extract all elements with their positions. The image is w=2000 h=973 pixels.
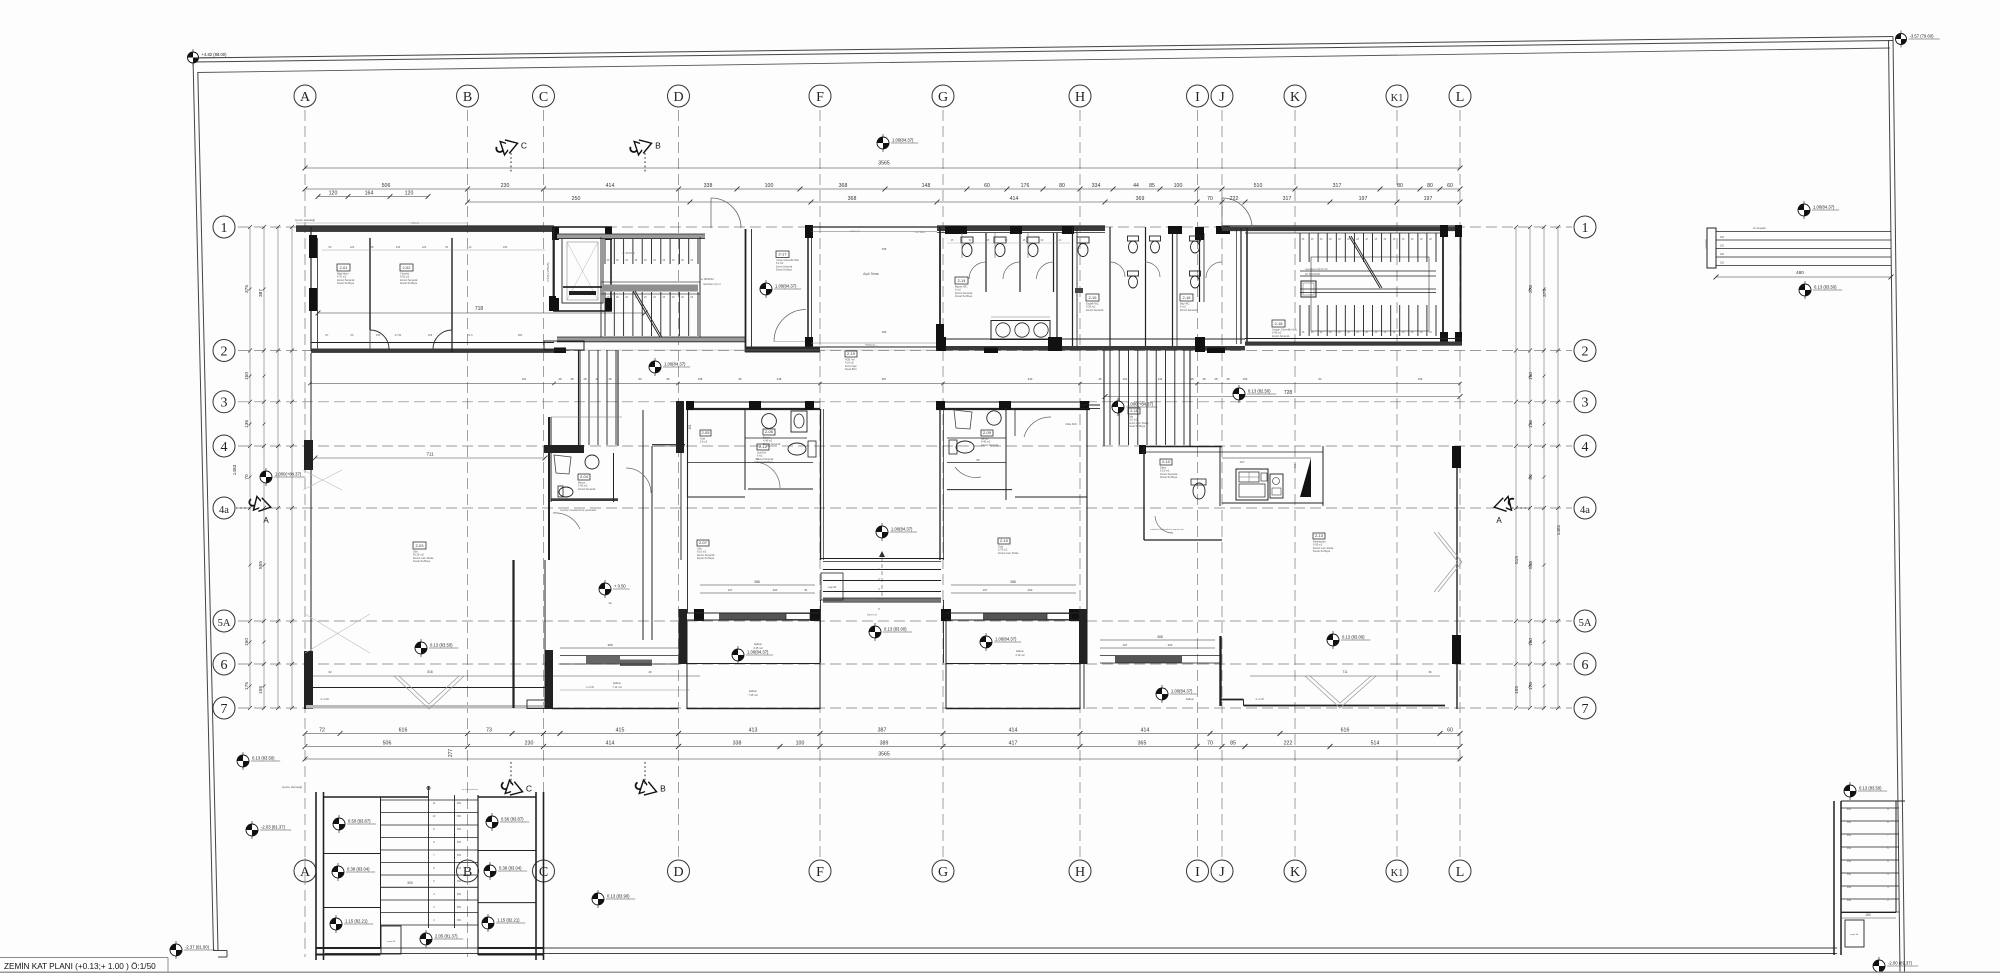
svg-text:0.+9.08: 0.+9.08 [586,686,595,689]
svg-text:+4.82 (88.00): +4.82 (88.00) [202,52,228,57]
svg-text:K1: K1 [1391,93,1404,104]
svg-text:4: 4 [1582,440,1589,455]
svg-text:317: 317 [1283,196,1292,202]
svg-text:120: 120 [422,245,427,249]
svg-text:352: 352 [457,906,462,909]
svg-text:K: K [1290,865,1300,880]
svg-text:352: 352 [1847,847,1852,850]
svg-text:5A: 5A [218,618,231,629]
svg-text:388: 388 [607,643,612,647]
svg-text:387: 387 [882,377,887,381]
svg-text:155: 155 [1514,686,1520,694]
svg-text:0.38 (83.04): 0.38 (83.04) [499,866,522,871]
svg-text:Duvar:Sv.Boya: Duvar:Sv.Boya [757,461,773,464]
svg-text:kamer yd: kamer yd [865,344,876,347]
svg-text:D: D [673,865,683,880]
svg-text:80: 80 [1528,474,1534,480]
svg-text:81: 81 [804,588,808,592]
svg-text:28: 28 [1214,377,1218,381]
svg-text:387: 387 [258,289,264,297]
svg-text:164: 164 [365,191,374,197]
svg-text:Duvar:Sv.Boya: Duvar:Sv.Boya [413,559,431,563]
svg-text:3a: 3a [608,601,612,605]
svg-text:70: 70 [244,474,250,480]
svg-text:merdiven (A m): merdiven (A m) [703,282,721,286]
svg-text:368: 368 [848,196,857,202]
svg-text:100: 100 [796,741,805,747]
svg-text:0.13 (83.00): 0.13 (83.00) [1342,635,1365,640]
svg-text:1481: 1481 [1556,524,1562,535]
svg-text:D: D [673,90,683,105]
svg-text:317: 317 [1333,183,1342,189]
svg-text:1: 1 [221,221,228,236]
svg-text:Duvar:Brüt: Duvar:Brüt [845,368,857,371]
svg-text:engel lift: engel lift [1850,933,1859,936]
svg-text:F: F [816,90,824,105]
svg-text:132: 132 [1158,377,1163,381]
svg-text:K1: K1 [1391,868,1404,879]
svg-text:2-04: 2-04 [580,474,589,479]
svg-text:107: 107 [728,588,733,592]
svg-text:1.00(84.37): 1.00(84.37) [775,284,797,289]
svg-text:96: 96 [738,377,742,381]
svg-text:3.35 m2: 3.35 m2 [753,646,763,650]
svg-text:J: J [1219,865,1225,880]
svg-text:352: 352 [1847,808,1852,811]
svg-text:3: 3 [221,396,228,411]
svg-text:60: 60 [1447,183,1453,189]
svg-text:161: 161 [688,424,692,430]
svg-text:417: 417 [1009,741,1018,747]
svg-text:I: I [1195,90,1200,105]
svg-text:136: 136 [1528,420,1534,428]
svg-text:Duvar:Sv.Boya: Duvar:Sv.Boya [1313,549,1331,553]
svg-text:73: 73 [486,728,492,734]
svg-text:+ 0.50: + 0.50 [614,584,626,589]
svg-text:510: 510 [1254,183,1263,189]
svg-text:2-11: 2-11 [1130,408,1138,413]
svg-text:352: 352 [457,867,462,870]
svg-text:1.15 (82.21): 1.15 (82.21) [497,918,520,923]
svg-text:388: 388 [1157,635,1163,639]
svg-text:352: 352 [457,919,462,922]
svg-text:136: 136 [244,420,250,428]
svg-text:302: 302 [1720,262,1725,265]
svg-text:1.00(84.37): 1.00(84.37) [1813,205,1835,210]
svg-text:2-05: 2-05 [701,430,710,435]
svg-text:415: 415 [616,728,625,734]
svg-text:414: 414 [1010,196,1019,202]
svg-text:2-02: 2-02 [402,265,411,270]
svg-text:352: 352 [1847,873,1852,876]
svg-text:G: G [938,865,948,880]
svg-text:-2.37 (81.00): -2.37 (81.00) [185,945,210,950]
svg-text:7.35 m2: 7.35 m2 [748,693,758,697]
svg-text:K: K [1290,90,1300,105]
svg-text:222: 222 [1284,741,1293,747]
svg-text:1: 1 [1582,221,1589,236]
svg-text:166: 166 [428,333,433,337]
svg-text:0.38 (83.04): 0.38 (83.04) [347,867,370,872]
svg-text:7.14 m2: 7.14 m2 [612,685,622,689]
svg-text:bu rampalar: bu rampalar [1753,227,1766,230]
svg-text:4a: 4a [219,505,229,516]
svg-text:L: L [1456,90,1465,105]
svg-text:375: 375 [1542,289,1548,297]
svg-text:515: 515 [1514,556,1520,564]
svg-text:158: 158 [698,377,703,381]
svg-text:0.13 (83.00): 0.13 (83.00) [884,627,907,632]
svg-text:C: C [521,141,527,151]
svg-text:300: 300 [407,881,413,885]
svg-text:52: 52 [1318,377,1322,381]
svg-text:352: 352 [457,854,462,857]
svg-text:-0.+9.08: -0.+9.08 [320,698,330,701]
svg-text:718: 718 [475,306,484,312]
svg-text:3565: 3565 [878,752,890,758]
svg-text:100: 100 [765,183,774,189]
svg-text:cam kaide: cam kaide [915,232,926,234]
svg-text:C: C [539,90,548,105]
svg-text:148: 148 [922,183,931,189]
svg-text:200: 200 [773,588,778,592]
svg-text:2-12: 2-12 [759,444,768,449]
svg-text:A: A [300,90,311,105]
svg-text:352: 352 [457,893,462,896]
svg-text:0.13 (83.90): 0.13 (83.90) [607,894,630,899]
svg-text:200: 200 [1168,643,1173,647]
svg-text:555: 555 [1528,561,1534,569]
svg-text:80: 80 [666,377,670,381]
svg-text:B: B [463,90,472,105]
svg-text:Zemin:Seramik: Zemin:Seramik [1180,308,1198,312]
svg-text:352: 352 [1847,886,1852,889]
svg-text:387: 387 [878,728,887,734]
svg-text:80: 80 [1059,183,1065,189]
svg-text:375: 375 [244,285,250,293]
svg-text:28: 28 [595,377,599,381]
svg-text:2-13: 2-13 [1315,533,1324,538]
svg-text:28: 28 [1226,377,1230,381]
svg-text:merdiven 22.9 m2: merdiven 22.9 m2 [1305,267,1328,271]
svg-text:230: 230 [501,183,510,189]
svg-text:352: 352 [1847,899,1852,902]
svg-text:-3.57 (79.60): -3.57 (79.60) [1910,34,1935,39]
svg-text:Duvar:Sv.Boya: Duvar:Sv.Boya [1128,424,1146,428]
svg-text:4: 4 [221,440,228,455]
svg-text:155: 155 [258,686,264,694]
svg-text:368: 368 [839,183,848,189]
svg-text:Çevre Hendeği: Çevre Hendeği [295,218,315,222]
svg-text:4a: 4a [1580,505,1590,516]
svg-text:balkon: balkon [1186,697,1195,701]
svg-text:engel lift: engel lift [387,940,396,943]
svg-text:36: 36 [1428,670,1432,674]
svg-text:merdiven hevalandırma yapılaca: merdiven hevalandırma yapılacaktır [560,509,597,512]
svg-text:159: 159 [1243,377,1248,381]
svg-text:3565: 3565 [878,161,890,167]
svg-text:414: 414 [1141,728,1150,734]
svg-text:2-03: 2-03 [415,543,424,548]
svg-text:2-16: 2-16 [1182,295,1191,300]
svg-text:107: 107 [983,588,988,592]
svg-text:balkon: balkon [754,642,763,646]
svg-text:88: 88 [976,458,980,462]
svg-text:C: C [526,784,532,794]
svg-text:352: 352 [1847,821,1852,824]
svg-text:150: 150 [1865,913,1871,917]
svg-text:197: 197 [1424,196,1433,202]
svg-text:175: 175 [1528,682,1534,690]
svg-text:0.50 (83.87): 0.50 (83.87) [348,819,371,824]
svg-text:0.13 (83.50): 0.13 (83.50) [1859,786,1882,791]
svg-text:1.00(84.37): 1.00(84.37) [892,138,914,143]
svg-text:engeli lift: engeli lift [1705,239,1708,248]
svg-text:197: 197 [1239,460,1244,464]
svg-text:1.00(84.37): 1.00(84.37) [1171,689,1193,694]
svg-text:P.08 kd: P.08 kd [411,222,419,225]
svg-text:1.000(+84.37): 1.000(+84.37) [1127,402,1154,407]
svg-text:46: 46 [648,670,652,674]
svg-text:1.15 (82.21): 1.15 (82.21) [345,919,368,924]
svg-text:4.19 m2: 4.19 m2 [1015,653,1025,657]
svg-text:120: 120 [329,191,338,197]
svg-text:Duvar:Sv.Boya: Duvar:Sv.Boya [776,269,792,272]
svg-text:80: 80 [1397,183,1403,189]
svg-text:80: 80 [1427,183,1433,189]
svg-text:302: 302 [1720,253,1725,256]
svg-text:389: 389 [880,741,889,747]
svg-text:506: 506 [382,183,391,189]
svg-text:balkon: balkon [613,681,622,685]
svg-text:28: 28 [1190,377,1194,381]
svg-text:2-10: 2-10 [1162,459,1171,464]
svg-text:Zemin:Seramik: Zemin:Seramik [1272,334,1290,338]
svg-text:616: 616 [399,728,408,734]
svg-text:711: 711 [1342,670,1347,674]
svg-text:62: 62 [328,670,332,674]
svg-text:160: 160 [1528,638,1534,646]
svg-text:160: 160 [1528,372,1534,380]
svg-text:388: 388 [1010,580,1016,584]
svg-text:Zemin:Seramik: Zemin:Seramik [1086,308,1104,312]
svg-text:352: 352 [457,841,462,844]
svg-text:0.13 (83.50): 0.13 (83.50) [1814,285,1837,290]
svg-text:2-18: 2-18 [1274,321,1283,326]
svg-text:369: 369 [1136,196,1145,202]
svg-text:110: 110 [522,377,527,381]
svg-text:A: A [263,516,269,525]
svg-text:kamer yd: kamer yd [850,230,860,233]
svg-text:70: 70 [1207,741,1213,747]
svg-text:balkon: balkon [1016,649,1025,653]
svg-text:2: 2 [1582,344,1589,359]
svg-text:1.00(84.37): 1.00(84.37) [664,362,686,367]
svg-text:555: 555 [258,561,264,569]
svg-text:A: A [300,865,311,880]
svg-text:150: 150 [376,333,381,337]
svg-text:P135 (250/25): P135 (250/25) [609,262,613,281]
svg-text:Zemin:Seramik: Zemin:Seramik [981,443,999,447]
svg-text:0.13 (82.50): 0.13 (82.50) [1248,389,1271,394]
svg-text:159: 159 [1418,377,1423,381]
svg-text:28: 28 [583,377,587,381]
svg-text:197: 197 [1359,196,1368,202]
svg-text:160: 160 [244,638,250,646]
svg-text:Açık Teras: Açık Teras [863,272,879,276]
svg-text:72: 72 [319,728,325,734]
svg-text:-2.03 (81.37): -2.03 (81.37) [261,825,286,830]
svg-text:balkon: balkon [749,689,758,693]
svg-text:1.000(+84.37): 1.000(+84.37) [275,472,302,477]
svg-text:7: 7 [221,702,228,717]
svg-text:k2 300/16/30: k2 300/16/30 [1305,272,1321,276]
svg-text:28: 28 [558,377,562,381]
svg-text:365: 365 [1138,741,1147,747]
svg-text:190: 190 [503,245,508,249]
svg-text:ZEMİN KAT PLANI (+0.13;+ 1.00: ZEMİN KAT PLANI (+0.13;+ 1.00 ) Ö:1/50 [4,961,156,971]
svg-text:352: 352 [457,828,462,831]
svg-text:230: 230 [525,741,534,747]
svg-text:60: 60 [1447,728,1453,734]
svg-text:up 18/30/42: up 18/30/42 [622,252,635,255]
svg-text:388: 388 [882,330,887,334]
svg-text:352: 352 [457,802,462,805]
svg-text:414: 414 [606,183,615,189]
svg-text:28: 28 [608,377,612,381]
svg-text:Çevre Hendeği: Çevre Hendeği [282,785,302,789]
svg-text:2.05 (81.37): 2.05 (81.37) [435,934,458,939]
svg-text:14 m2: 14 m2 [700,440,708,444]
svg-text:352: 352 [457,880,462,883]
svg-text:1483: 1483 [232,464,238,475]
svg-text:514: 514 [1371,741,1380,747]
svg-text:175: 175 [244,682,250,690]
svg-text:Zemin:Lam.Parke: Zemin:Lam.Parke [998,551,1019,555]
svg-text:7: 7 [1582,702,1589,717]
svg-text:130: 130 [396,245,401,249]
svg-text:-2.00 (81.37): -2.00 (81.37) [1888,961,1913,966]
svg-text:176: 176 [1021,183,1030,189]
svg-text:480: 480 [1796,270,1804,275]
svg-text:140: 140 [1293,463,1297,468]
svg-text:1.00(84.37): 1.00(84.37) [995,637,1017,642]
svg-text:Duvar:Sv.Boya: Duvar:Sv.Boya [697,556,715,560]
svg-text:1.00(84.37): 1.00(84.37) [891,527,913,532]
svg-text:Zemin:Seramik: Zemin:Seramik [578,487,596,491]
svg-text:238: 238 [777,377,782,381]
svg-text:B: B [655,141,661,151]
svg-text:191: 191 [1123,377,1128,381]
svg-text:2-06: 2-06 [765,429,774,434]
svg-text:28: 28 [1202,377,1206,381]
svg-text:I: I [1195,865,1200,880]
svg-text:2-07: 2-07 [699,540,708,545]
svg-text:338: 338 [733,741,742,747]
svg-text:2-10: 2-10 [1000,538,1009,543]
svg-text:85: 85 [1230,741,1236,747]
svg-text:100: 100 [1174,183,1183,189]
svg-text:388: 388 [882,247,887,251]
svg-text:302: 302 [1720,236,1725,239]
svg-text:0.13 (83.50): 0.13 (83.50) [430,643,453,648]
svg-text:H: H [1075,865,1085,880]
svg-text:no 18/30/42: no 18/30/42 [700,277,714,281]
svg-text:P135 (175/25): P135 (175/25) [546,262,550,281]
svg-text:120: 120 [405,191,414,197]
svg-text:352: 352 [1847,834,1852,837]
svg-text:200: 200 [1028,588,1033,592]
svg-text:414: 414 [606,741,615,747]
svg-text:kamer yd: kamer yd [867,614,878,617]
svg-text:jet havalandırma: jet havalandırma [461,788,479,791]
svg-text:2-09: 2-09 [983,430,992,435]
svg-text:engel lift: engel lift [828,586,837,589]
svg-text:414: 414 [1009,728,1018,734]
svg-text:G: G [938,90,948,105]
svg-text:260: 260 [518,333,523,337]
svg-text:728: 728 [1284,390,1293,396]
svg-text:338: 338 [704,183,713,189]
svg-text:2-14: 2-14 [957,278,966,283]
svg-text:2-17: 2-17 [778,252,787,257]
svg-text:2-01: 2-01 [339,265,348,270]
svg-text:L: L [1456,865,1465,880]
svg-text:5A: 5A [1579,618,1592,629]
svg-text:250: 250 [572,196,581,202]
svg-text:A: A [1496,516,1502,525]
svg-text:80: 80 [638,377,642,381]
svg-text:46: 46 [1098,377,1102,381]
svg-text:107: 107 [1123,643,1128,647]
svg-text:616: 616 [1341,728,1350,734]
svg-text:0.13 (83.50): 0.13 (83.50) [252,756,275,761]
svg-text:120: 120 [350,245,355,249]
svg-text:711: 711 [426,452,434,457]
svg-text:71.6: 71.6 [467,333,473,337]
svg-text:Duvar:Sv.Boya: Duvar:Sv.Boya [955,294,973,298]
svg-text:70: 70 [1207,196,1213,202]
svg-text:Duvar:Sv.Boya: Duvar:Sv.Boya [1160,475,1178,479]
svg-text:334: 334 [1092,183,1101,189]
svg-text:388: 388 [754,580,760,584]
svg-text:352: 352 [457,815,462,818]
svg-text:6: 6 [1582,658,1589,673]
svg-text:B: B [660,784,666,794]
svg-text:3: 3 [1582,396,1589,411]
svg-text:2-15: 2-15 [1088,295,1097,300]
svg-text:Duvar:Sv.Boya: Duvar:Sv.Boya [337,281,355,285]
svg-text:340: 340 [1028,377,1033,381]
svg-text:506: 506 [383,741,392,747]
svg-text:352: 352 [1847,860,1852,863]
svg-text:Duvar:Sv.Boya: Duvar:Sv.Boya [400,281,418,285]
svg-text:47.60: 47.60 [395,333,402,337]
svg-text:44: 44 [1133,183,1139,189]
svg-text:277: 277 [448,749,454,758]
svg-text:375: 375 [1528,285,1534,293]
svg-text:-0.+9.08: -0.+9.08 [1255,698,1265,701]
svg-text:mekanik havalandırma yapılacak: mekanik havalandırma yapılacaktır [1150,528,1184,531]
svg-text:2-19: 2-19 [847,351,856,356]
svg-text:H: H [1075,90,1085,105]
svg-text:60: 60 [984,183,990,189]
svg-text:85: 85 [1149,183,1155,189]
svg-text:J: J [1219,90,1225,105]
svg-text:F: F [816,865,824,880]
svg-text:818: 818 [427,670,433,674]
svg-text:Oda 9x6: Oda 9x6 [1065,422,1077,426]
